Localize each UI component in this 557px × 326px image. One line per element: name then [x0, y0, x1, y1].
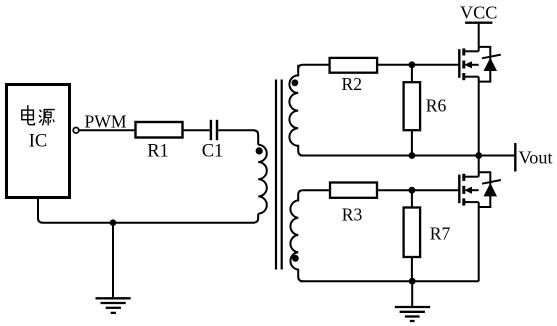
电: [27, 105, 29, 122]
junction R3/R7: [409, 187, 416, 194]
wire R7 bottom to bottom rail: [411, 257, 413, 281]
wire PWM terminal to R1: [79, 129, 135, 131]
ground (right): [395, 307, 430, 321]
S2 polarity dot: [292, 255, 299, 262]
capacitor C1: [202, 120, 224, 162]
body diode D2: [479, 172, 501, 207]
MOSFET Q2: [459, 174, 478, 281]
ground (left): [96, 298, 131, 313]
svg-text:R6: R6: [426, 96, 447, 116]
junction R2/R6: [409, 61, 416, 68]
resistor R3: [330, 183, 377, 225]
wire C1 to transformer primary top: [218, 130, 258, 145]
wire R3 to Q2 gate: [377, 189, 459, 191]
wire R1 to C1: [184, 129, 210, 131]
transformer core: [276, 80, 282, 270]
wire primary bottom to IC box (bottom rail): [38, 199, 258, 223]
transformer T1 secondary winding S1: [289, 65, 303, 156]
wire junction to R6: [411, 65, 413, 82]
junction Q1 source / Q2 drain on Vout rail: [475, 152, 482, 159]
MOSFET Q1: [459, 48, 478, 155]
PWM output terminal (open circle): [73, 128, 79, 134]
wire VCC to Q1 drain: [478, 23, 480, 52]
wire S2 top to R3: [303, 189, 330, 191]
transformer T1 primary winding: [258, 145, 267, 214]
label 电源 (drawn strokes): [22, 105, 55, 125]
svg-text:IC: IC: [29, 131, 48, 151]
wire R2 to Q1 gate: [378, 64, 459, 66]
svg-text:R7: R7: [430, 224, 451, 244]
junction R6/Vout rail: [409, 152, 416, 159]
wire S2 bottom to Q2 source (bottom rail): [300, 280, 479, 282]
power IC box: [7, 85, 70, 198]
label PWM: [85, 112, 127, 132]
wire junction to right ground: [411, 281, 413, 307]
resistor R2: [330, 58, 378, 94]
primary polarity dot: [256, 147, 263, 154]
resistor R7: [404, 208, 451, 258]
wire junction to left ground: [112, 223, 114, 298]
junction bottom rail / ground: [409, 278, 416, 285]
body diode D1: [479, 47, 501, 82]
terminal Vout: [515, 143, 552, 172]
svg-text:R3: R3: [342, 205, 363, 225]
svg-text:VCC: VCC: [460, 3, 497, 23]
wire R6 bottom to Vout rail: [411, 130, 413, 155]
label IC: [29, 131, 48, 151]
wire S1 top to R2: [298, 65, 329, 69]
junction bottom-left rail: [110, 219, 117, 226]
S1 polarity dot: [292, 79, 299, 86]
transformer T1 secondary winding S2: [290, 190, 302, 281]
wire Vout rail to Q2 drain: [478, 156, 480, 177]
terminal VCC: [460, 3, 497, 23]
svg-text:Vout: Vout: [519, 147, 553, 167]
svg-text:R1: R1: [147, 142, 169, 162]
源: [40, 110, 42, 112]
svg-text:C1: C1: [202, 142, 224, 162]
svg-text:PWM: PWM: [85, 112, 127, 132]
wire junction to R7: [411, 190, 413, 207]
resistor R1: [136, 122, 183, 162]
wire S1 bottom to Vout terminal (Vout rail): [300, 155, 515, 157]
resistor R6: [404, 82, 447, 130]
svg-text:R2: R2: [342, 74, 363, 94]
